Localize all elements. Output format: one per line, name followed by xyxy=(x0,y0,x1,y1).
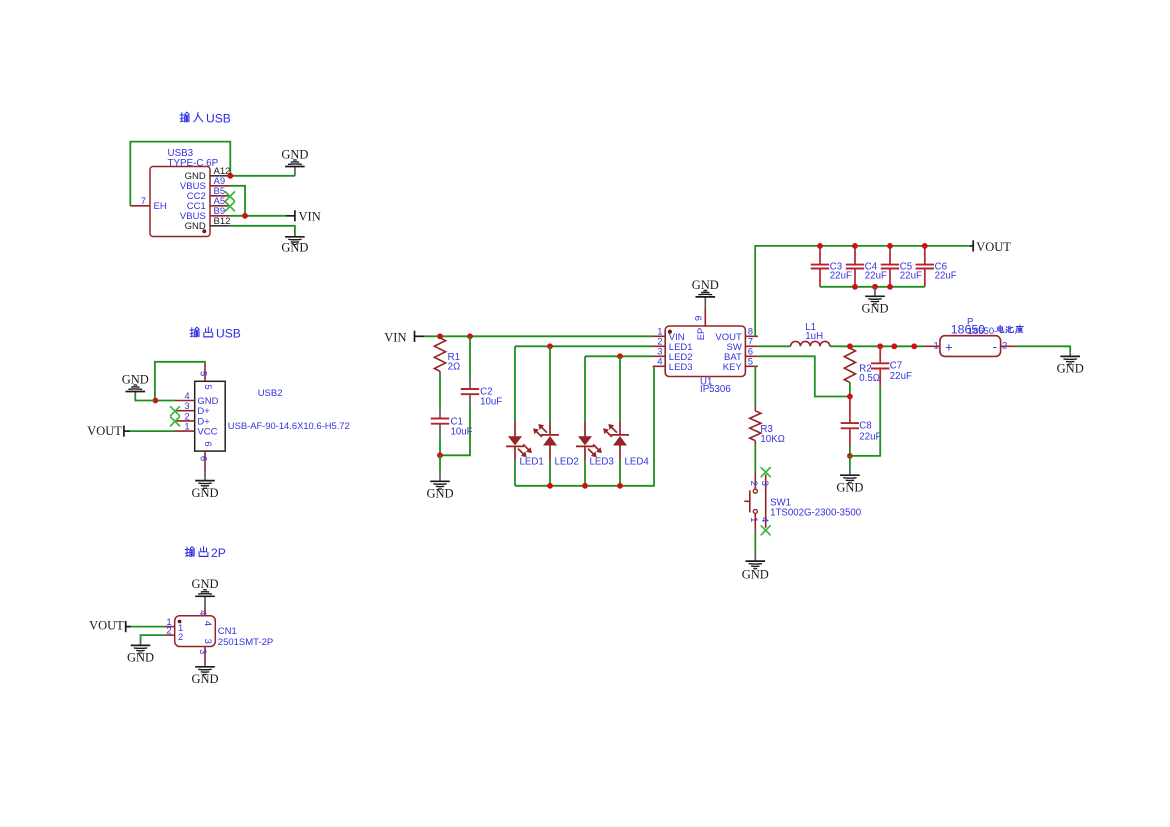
wire C2 down to gnd rail xyxy=(440,406,470,455)
wire R3 to SW1 xyxy=(754,445,756,473)
svg-text:GND: GND xyxy=(692,278,719,292)
wire LED4 top xyxy=(619,356,621,421)
wire LED3 bottom xyxy=(584,461,586,486)
ground below SW1 xyxy=(742,531,769,582)
pin 6 BAT of U1 xyxy=(724,347,758,363)
wire U1 pin8 up to VOUT rail xyxy=(755,246,970,336)
ground below C3-C6 rail xyxy=(861,287,888,316)
wire VOUT to CN1 pin1 xyxy=(131,626,164,628)
junction on A12 wire xyxy=(227,173,233,179)
ground below C8 xyxy=(836,456,863,495)
no-connect X on CC2 pin B5 xyxy=(226,192,235,201)
pin 4 LED3 of U1 xyxy=(653,357,693,373)
junction C4 top xyxy=(852,243,858,249)
wire LED2 top xyxy=(549,346,551,421)
switch SW1 1TS002G-2300-3500 xyxy=(744,472,861,531)
connector USB2 USB-AF xyxy=(195,381,350,451)
svg-text:2: 2 xyxy=(1002,341,1007,352)
section title 输入USB xyxy=(180,112,231,126)
svg-text:1: 1 xyxy=(934,341,939,352)
svg-text:VOUT: VOUT xyxy=(89,618,124,632)
wire EH loop pin7 to GND net xyxy=(130,142,230,206)
wire LED1 bottom xyxy=(514,461,516,486)
svg-text:LED4: LED4 xyxy=(625,457,650,468)
svg-text:GND: GND xyxy=(191,672,218,686)
capacitor C2 10uF xyxy=(461,336,502,407)
svg-text:9: 9 xyxy=(694,316,705,321)
wire VBUS A9 down to VIN net xyxy=(230,186,245,216)
svg-text:1: 1 xyxy=(184,422,189,433)
svg-text:22uF: 22uF xyxy=(900,270,922,281)
wire VOUT to USB2 VCC xyxy=(130,430,175,432)
junction BAT/R2/C8 xyxy=(847,394,853,400)
capacitor C1 10uF xyxy=(431,407,473,438)
capacitor C6 22uF xyxy=(916,246,957,287)
junction R2 top xyxy=(847,343,853,349)
wire U1 pin7 to L1 xyxy=(758,345,791,347)
wire C3-C6 bottom rail xyxy=(820,286,925,288)
junction gnd tap xyxy=(872,284,878,290)
junction USB2 GND wire xyxy=(153,398,159,404)
wire U1 pin5 KEY down to R3 xyxy=(754,366,756,407)
svg-text:GND: GND xyxy=(122,373,149,387)
wire LED3 top xyxy=(584,356,586,421)
connector CN1 2501SMT-2P xyxy=(175,616,274,648)
svg-text:1TS002G-2300-3500: 1TS002G-2300-3500 xyxy=(770,507,862,518)
svg-text:CN1: CN1 xyxy=(218,626,237,637)
svg-text:USB: USB xyxy=(206,112,231,126)
svg-text:VIN: VIN xyxy=(299,209,321,223)
svg-text:1: 1 xyxy=(748,517,759,522)
svg-text:3: 3 xyxy=(197,649,208,654)
junction C5 top xyxy=(887,243,893,249)
junction C6 top xyxy=(922,243,928,249)
inductor L1 1uH xyxy=(791,322,830,346)
svg-text:4: 4 xyxy=(657,357,662,368)
pin 3 LED2 of U1 xyxy=(653,347,693,363)
resistor R3 10Kohm xyxy=(750,407,785,446)
wire R1 to C1 xyxy=(439,371,441,375)
svg-text:10uF: 10uF xyxy=(480,397,502,408)
svg-text:LED3: LED3 xyxy=(590,457,614,468)
svg-text:18650-: 18650- xyxy=(968,326,998,337)
capacitor C8 22uF xyxy=(841,397,882,447)
junction VIN/C2 xyxy=(467,333,473,339)
svg-text:GND: GND xyxy=(281,148,308,162)
wire U1 pin2 to LED1/LED2 xyxy=(515,345,653,347)
svg-text:LED1: LED1 xyxy=(520,457,544,468)
wire LED2 bottom xyxy=(549,461,551,486)
svg-text:5: 5 xyxy=(197,371,208,376)
svg-text:GND: GND xyxy=(742,568,769,582)
LED LED1 xyxy=(506,421,544,467)
svg-text:0.5Ω: 0.5Ω xyxy=(859,373,880,384)
LED LED2 xyxy=(533,421,579,467)
pin 1 of battery xyxy=(924,341,940,352)
svg-text:VOUT: VOUT xyxy=(976,240,1011,254)
LED LED4 xyxy=(603,421,649,467)
pin A5 CC1 of USB3 xyxy=(187,196,230,212)
svg-text:KEY: KEY xyxy=(723,362,743,373)
pin B5 CC2 of USB3 xyxy=(187,186,230,202)
svg-text:GND: GND xyxy=(185,221,206,232)
svg-text:GND: GND xyxy=(191,486,218,500)
svg-text:7: 7 xyxy=(141,196,146,207)
svg-text:LED2: LED2 xyxy=(555,457,579,468)
resistor R2 0.5ohm xyxy=(844,348,880,384)
svg-text:-: - xyxy=(993,340,997,354)
ground below CN1 xyxy=(191,663,218,686)
wire LED bottom rail to U1 pin4 xyxy=(515,366,654,486)
net flag VOUT (CN1) xyxy=(89,618,131,632)
battery holder P 18650 xyxy=(940,317,1023,357)
svg-text:5: 5 xyxy=(748,357,753,368)
section title 输出USB xyxy=(190,327,241,341)
pin 8 VOUT of U1 xyxy=(715,327,757,343)
svg-text:5: 5 xyxy=(202,384,213,389)
pin B9 VBUS of USB3 xyxy=(180,206,230,222)
capacitor C4 22uF xyxy=(846,246,887,287)
svg-text:22uF: 22uF xyxy=(830,270,852,281)
wire battery pin2 to ground xyxy=(1015,346,1070,352)
svg-text:3: 3 xyxy=(759,481,770,486)
pin 9 EP of U1 (top) xyxy=(694,308,706,326)
svg-text:USB-AF-90-14.6X10.6-H5.72: USB-AF-90-14.6X10.6-H5.72 xyxy=(228,420,350,431)
svg-text:4: 4 xyxy=(759,517,770,522)
pin 2 D+ of USB2 xyxy=(175,411,210,427)
ground below C1 xyxy=(426,455,453,500)
wire C1 to gnd rail xyxy=(439,436,441,456)
svg-text:22uF: 22uF xyxy=(935,270,957,281)
pin B12 GND of USB3 xyxy=(185,216,231,232)
junction LED2 bottom xyxy=(547,483,553,489)
svg-text:TYPE-C 6P: TYPE-C 6P xyxy=(168,158,219,169)
junction C3 top xyxy=(817,243,823,249)
svg-text:IP5306: IP5306 xyxy=(700,384,731,395)
svg-text:4: 4 xyxy=(202,621,213,626)
wire CN1 pin2 to ground xyxy=(141,635,165,641)
no-connect X on CC1 pin A5 xyxy=(226,202,235,211)
junction C8/C7 gnd xyxy=(847,453,853,459)
svg-text:2Ω: 2Ω xyxy=(448,362,461,373)
svg-text:4: 4 xyxy=(197,610,208,615)
pin 4 GND of USB2 xyxy=(175,391,219,407)
ground above CN1 xyxy=(191,577,218,606)
svg-text:22uF: 22uF xyxy=(865,270,887,281)
svg-text:GND: GND xyxy=(836,480,863,494)
svg-text:USB2: USB2 xyxy=(258,388,283,399)
svg-text:GND: GND xyxy=(191,577,218,591)
wire VIN to U1 pin1 xyxy=(425,335,653,337)
svg-text:C7: C7 xyxy=(890,360,902,371)
junction C5 bottom xyxy=(887,284,893,290)
svg-text:B12: B12 xyxy=(214,216,231,227)
pin 2 of CN1 xyxy=(164,625,183,643)
svg-text:LED3: LED3 xyxy=(669,362,693,373)
pin 7 SW of U1 xyxy=(726,337,757,353)
pin 4 of CN1 (top) xyxy=(197,606,213,626)
svg-text:VIN: VIN xyxy=(384,330,406,344)
pin A12 GND of USB3 xyxy=(185,166,231,182)
ground below USB2 pin6 xyxy=(191,472,218,499)
LED LED3 xyxy=(576,421,614,467)
pin 2 LED1 of U1 xyxy=(653,337,693,353)
junction SW rail b xyxy=(911,343,917,349)
net flag VOUT (rail) xyxy=(970,240,1011,254)
svg-text:EH: EH xyxy=(154,201,167,212)
pin 5 of USB2 (top) xyxy=(197,362,213,389)
ground left of CN1 xyxy=(127,642,154,665)
resistor R1 2ohm xyxy=(434,338,460,373)
no-connect X on USB2 pin 3 xyxy=(171,407,180,416)
junction VIN/R1 xyxy=(437,333,443,339)
junction LED4 bottom xyxy=(617,483,623,489)
ground above U1 pin9 xyxy=(692,278,719,308)
svg-text:22uF: 22uF xyxy=(890,371,912,382)
svg-text:2: 2 xyxy=(748,481,759,486)
svg-text:GND: GND xyxy=(281,241,308,255)
ground top right of USB3 xyxy=(281,148,308,176)
wire C8 to gnd junction xyxy=(849,446,851,456)
wire LED1 top xyxy=(514,346,516,421)
junction C1/C2 gnd xyxy=(437,452,443,458)
ground bottom right of USB3 xyxy=(281,233,308,255)
svg-text:2501SMT-2P: 2501SMT-2P xyxy=(218,637,273,648)
svg-text:VCC: VCC xyxy=(197,427,217,438)
svg-text:2: 2 xyxy=(178,632,183,643)
wire LED4 bottom xyxy=(619,461,621,486)
wire GND A12 to ground xyxy=(230,175,295,177)
no-connect X on USB2 pin 2 xyxy=(171,417,180,426)
no-connect X on SW1 pin3 xyxy=(761,468,770,477)
wire USB2 pin5 loop to GND xyxy=(155,362,205,401)
pin 6 of USB2 (bottom) xyxy=(197,441,213,472)
svg-text:C8: C8 xyxy=(859,421,871,432)
wire R2 bottom to BAT junction xyxy=(849,383,851,397)
capacitor C7 22uF xyxy=(871,346,912,386)
pin 1 of CN1 xyxy=(164,617,183,634)
junction A9/B9 xyxy=(242,213,248,219)
pin 7 EH of USB3 xyxy=(130,196,167,212)
svg-text:3: 3 xyxy=(202,639,213,644)
svg-text:VOUT: VOUT xyxy=(87,424,122,438)
junction LED4 top xyxy=(617,353,623,359)
svg-text:1uH: 1uH xyxy=(805,331,823,342)
no-connect X on SW1 pin4 xyxy=(761,526,770,535)
junction LED2 top xyxy=(547,343,553,349)
net flag VOUT (USB2) xyxy=(87,424,130,438)
svg-text:2: 2 xyxy=(166,625,171,636)
svg-text:EP: EP xyxy=(696,328,706,340)
svg-text:6: 6 xyxy=(197,456,208,461)
svg-text:GND: GND xyxy=(127,651,154,665)
junction C4 bottom xyxy=(852,284,858,290)
svg-text:GND: GND xyxy=(861,301,888,315)
wire U1 pin6 BAT to R2/C8 xyxy=(758,356,850,396)
svg-text:USB: USB xyxy=(216,327,241,341)
pin 3 of CN1 (bottom) xyxy=(197,639,213,663)
svg-text:GND: GND xyxy=(1057,362,1084,376)
net flag VIN (USB3) xyxy=(286,209,321,223)
wire U1 pin3 to LED3/LED4 xyxy=(585,355,653,357)
svg-text:22uF: 22uF xyxy=(859,431,881,442)
connector USB3 TYPE-C 6P xyxy=(150,148,219,237)
svg-text:GND: GND xyxy=(426,487,453,501)
svg-text:10KΩ: 10KΩ xyxy=(760,434,784,445)
section title 输出2P xyxy=(185,546,226,560)
net flag VIN (main) xyxy=(384,330,425,344)
wire GND B12 to ground xyxy=(230,226,295,233)
svg-text:2P: 2P xyxy=(211,546,226,560)
pin 1 VIN of U1 xyxy=(653,327,685,343)
junction LED3 bottom xyxy=(582,483,588,489)
ground right of battery xyxy=(1057,352,1084,375)
pin 2 of battery xyxy=(1001,341,1015,352)
svg-text:+: + xyxy=(945,341,952,355)
pin 1 VCC of USB2 xyxy=(175,422,218,438)
junction SW rail a xyxy=(891,343,897,349)
capacitor C5 22uF xyxy=(881,246,922,287)
svg-text:6: 6 xyxy=(202,441,213,446)
wire L1 to battery (SW rail) xyxy=(830,345,924,347)
wire C7 bottom to gnd junction xyxy=(850,386,880,456)
wire VBUS B9 to VIN flag xyxy=(230,215,286,217)
pin A9 VBUS of USB3 xyxy=(180,176,230,192)
pin 3 D+ of USB2 xyxy=(175,401,210,417)
IC U1 IP5306 xyxy=(665,326,745,395)
junction C7 top xyxy=(877,343,883,349)
pin 5 KEY of U1 xyxy=(723,357,758,373)
capacitor C3 22uF xyxy=(811,246,852,287)
ground left of USB2 xyxy=(122,373,155,401)
